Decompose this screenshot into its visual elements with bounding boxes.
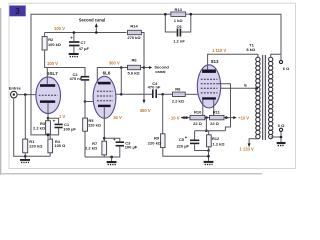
arrow +10V	[233, 116, 249, 121]
node V2 plate	[120, 66, 123, 69]
capacitor C7	[69, 31, 89, 53]
node R13 left	[164, 13, 167, 16]
node feedback cathode	[47, 134, 50, 137]
svg-text:100 V: 100 V	[54, 26, 65, 31]
svg-text:813: 813	[211, 59, 219, 64]
capacitor C5	[176, 131, 208, 151]
transformer T1 core	[263, 55, 266, 140]
svg-text:220 µF: 220 µF	[176, 143, 189, 148]
wire filament row	[181, 117, 234, 119]
svg-text:1 120 V: 1 120 V	[239, 147, 254, 152]
wire rail to 450V riser	[142, 33, 145, 95]
svg-text:R6: R6	[131, 58, 137, 63]
wire 100V rail	[45, 32, 127, 34]
svg-text:2.2 kΩ: 2.2 kΩ	[172, 98, 185, 103]
resistor R10	[190, 109, 205, 126]
svg-text:450 V: 450 V	[140, 108, 151, 113]
capacitor C1	[48, 118, 76, 135]
resistor R9	[148, 94, 209, 156]
svg-text:6SL7: 6SL7	[47, 71, 58, 76]
wire V2 cathode	[103, 107, 105, 141]
resistor R4	[48, 135, 66, 156]
node filament center	[205, 116, 208, 119]
node bias	[205, 129, 208, 132]
resistor R6	[121, 58, 144, 76]
node R13 right	[190, 13, 193, 16]
node grid V1	[24, 93, 27, 96]
wire screen UL tap E	[221, 83, 258, 90]
wire top feedback bus right	[191, 14, 281, 54]
wire secondary top 6 ohm	[271, 54, 290, 71]
tube V1 6SL7	[36, 68, 61, 114]
transformer T1 label	[246, 43, 256, 52]
wire beam plates to bias	[217, 84, 230, 131]
svg-text:6L6: 6L6	[103, 70, 111, 75]
wire grid V2	[85, 101, 94, 103]
svg-text:100 V: 100 V	[47, 61, 58, 66]
svg-text:+: +	[113, 137, 116, 142]
transformer T1 primary	[256, 57, 260, 139]
svg-text:34 V: 34 V	[113, 115, 122, 120]
svg-text:5.6 kΩ: 5.6 kΩ	[128, 70, 141, 75]
node bias bottom	[207, 149, 210, 152]
svg-text:2.2 kΩ: 2.2 kΩ	[33, 125, 46, 130]
svg-text:1 V: 1 V	[59, 114, 65, 119]
wire C4 to R8	[158, 93, 173, 95]
svg-text:3: 3	[15, 7, 20, 16]
ground under C7	[69, 53, 79, 57]
node 450V rail	[143, 66, 146, 69]
figure border	[9, 3, 296, 168]
capacitor C6 branch	[165, 14, 191, 43]
svg-text:1.2 kΩ: 1.2 kΩ	[213, 142, 226, 147]
svg-text:R8: R8	[175, 86, 181, 91]
svg-text:- 10 V: - 10 V	[168, 115, 179, 120]
node ground bus right	[207, 155, 210, 158]
svg-text:C7: C7	[81, 40, 87, 45]
node filament left	[185, 116, 188, 119]
svg-text:47 µF: 47 µF	[79, 46, 90, 51]
scan edge left	[0, 8, 1, 175]
svg-text:R13: R13	[175, 7, 183, 12]
node grid V2	[84, 100, 87, 103]
svg-text:8 kΩ: 8 kΩ	[246, 47, 256, 52]
resistor R5	[83, 102, 101, 158]
svg-text:C5: C5	[179, 137, 185, 142]
svg-text:E: E	[244, 83, 247, 88]
resistor R7	[85, 141, 107, 157]
node V2 cathode	[103, 137, 106, 140]
scan edge bottom	[0, 173, 262, 175]
resistor R3	[33, 118, 50, 138]
svg-text:canal: canal	[155, 69, 165, 74]
wire V3 plate to T1	[208, 54, 258, 69]
wire top feedback bus left	[31, 14, 165, 135]
svg-text:100 µF: 100 µF	[125, 145, 138, 150]
resistor R13	[165, 7, 191, 23]
svg-text:220 kΩ: 220 kΩ	[88, 123, 101, 128]
svg-text:Second canal: Second canal	[79, 17, 105, 22]
svg-text:220 kΩ: 220 kΩ	[148, 141, 162, 146]
wire V2 plate	[97, 68, 121, 84]
wire filament right leg	[213, 100, 215, 116]
resistor R11	[210, 109, 224, 126]
svg-text:1 110 V: 1 110 V	[212, 48, 226, 53]
tube V2 6L6	[93, 76, 116, 118]
ground under R7	[107, 156, 117, 165]
ground under bias	[204, 161, 214, 165]
svg-text:+: +	[185, 135, 188, 140]
arrow 450 V supply	[140, 94, 151, 113]
svg-text:1.2 nF: 1.2 nF	[173, 39, 185, 44]
tube V3 813	[197, 65, 220, 108]
wire plate to screen	[116, 68, 121, 95]
wire center tap down	[205, 118, 207, 131]
svg-text:1 kΩ: 1 kΩ	[174, 18, 184, 23]
capacitor C4	[148, 81, 161, 98]
wire bias to ground	[208, 151, 210, 161]
wire plate bus to C4	[121, 93, 153, 95]
capacitor C2	[70, 72, 90, 102]
wire secondary bottom 0 ohm	[271, 123, 285, 142]
resistor R2	[42, 33, 61, 51]
wire filament left leg	[202, 99, 204, 115]
svg-text:R12: R12	[212, 136, 220, 141]
transformer T1 secondary	[269, 57, 273, 139]
svg-text:100 µF: 100 µF	[63, 127, 76, 132]
wire V1 cathode	[47, 103, 49, 118]
svg-text:270 kΩ: 270 kΩ	[127, 35, 141, 40]
input jack Entree	[9, 86, 36, 156]
svg-text:470 nF: 470 nF	[148, 85, 161, 90]
node filament right	[225, 116, 228, 119]
svg-text:220 kΩ: 220 kΩ	[29, 143, 43, 148]
svg-text:Entrée: Entrée	[9, 86, 21, 90]
resistor R8	[172, 86, 198, 103]
svg-text:+10 V: +10 V	[238, 116, 249, 121]
node R9 top	[161, 93, 164, 96]
wire ground bus bottom left	[25, 155, 50, 157]
svg-text:R14: R14	[130, 24, 138, 29]
resistor R12	[207, 131, 226, 151]
ground 0 ohm	[277, 142, 286, 146]
wire primary bottom 1120V	[239, 139, 258, 152]
svg-text:R11: R11	[213, 109, 221, 114]
svg-text:2.2 kΩ: 2.2 kΩ	[85, 146, 98, 151]
resistor R1	[23, 95, 44, 159]
svg-text:6 Ω: 6 Ω	[283, 66, 290, 71]
svg-text:470 nF: 470 nF	[70, 76, 83, 81]
node ground bus left	[24, 155, 27, 158]
svg-text:22 Ω: 22 Ω	[193, 121, 203, 126]
wire R2 to plate bus	[45, 50, 85, 76]
arrow -10V	[168, 115, 184, 120]
svg-text:300 V: 300 V	[109, 60, 120, 65]
arrow second canal right	[144, 65, 169, 74]
node screen tie	[120, 93, 123, 96]
resistor R14	[127, 24, 141, 40]
svg-text:C6: C6	[176, 24, 182, 29]
svg-text:0 Ω: 0 Ω	[278, 123, 285, 128]
svg-text:100 kΩ: 100 kΩ	[48, 42, 61, 47]
svg-text:+: +	[70, 36, 73, 41]
wire bias node	[195, 130, 226, 132]
svg-text:R10: R10	[194, 109, 202, 114]
badge 3	[9, 6, 25, 17]
svg-text:+: +	[53, 119, 56, 124]
svg-text:100 Ω: 100 Ω	[54, 143, 66, 148]
arrow second canal top	[79, 17, 105, 34]
node V1 cathode	[47, 117, 50, 120]
svg-text:22 Ω: 22 Ω	[210, 121, 220, 126]
capacitor C3	[85, 137, 138, 157]
ground bottom left	[20, 159, 30, 162]
